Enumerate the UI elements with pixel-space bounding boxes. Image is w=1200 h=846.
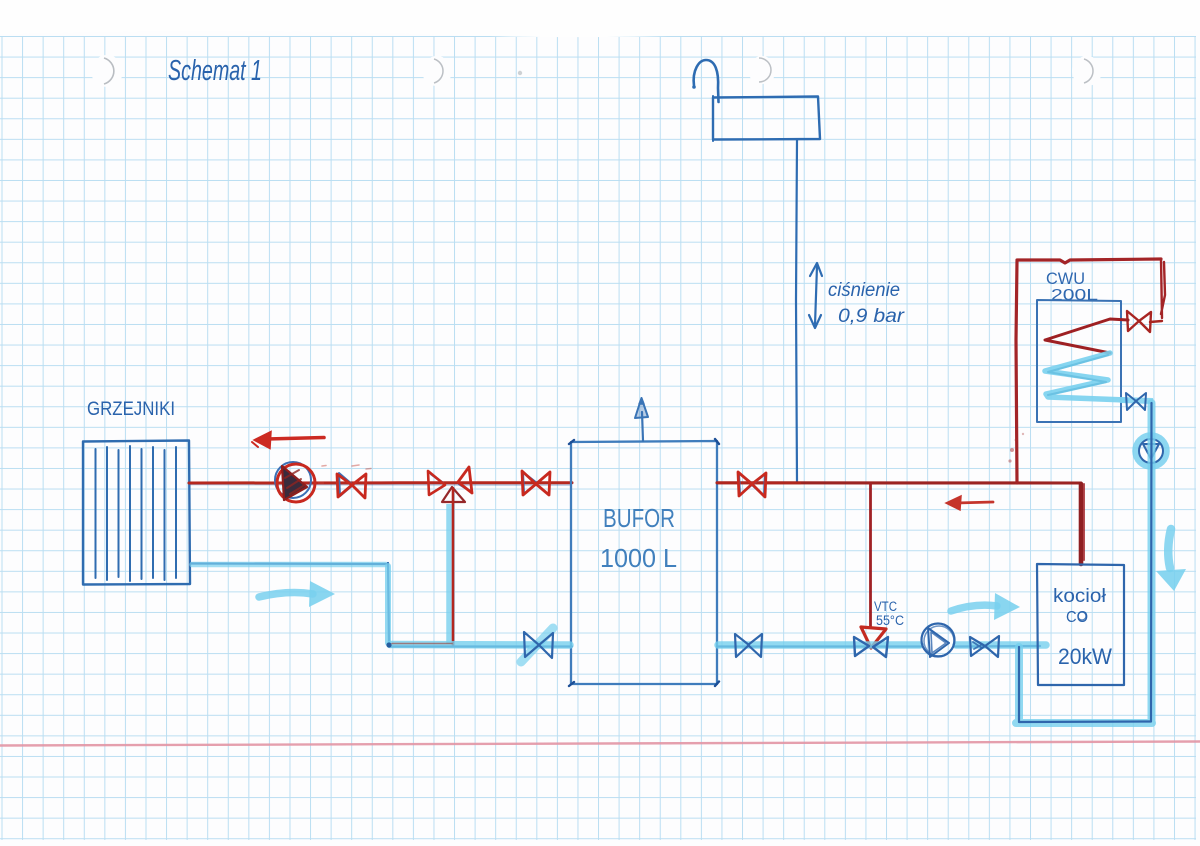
wire boiler bottom loop — [1016, 403, 1152, 723]
wire red boiler feed drop — [1079, 484, 1084, 564]
svg-text:55°C: 55°C — [876, 613, 904, 628]
wire red supply main left — [189, 481, 572, 484]
ink speckles near pump — [319, 465, 371, 483]
wire marker+red vertical from 3-way valve — [446, 504, 452, 644]
red thick arrow left — [252, 432, 324, 449]
svg-text:kocioł: kocioł — [1053, 586, 1107, 607]
valve V3 (red, right of bufor) — [738, 472, 766, 497]
valve V1 — [337, 473, 366, 498]
wire red drop to VTC valve — [869, 484, 872, 627]
svg-text:VTC: VTC — [874, 599, 897, 614]
VTC top triangle (red, points down) — [861, 627, 886, 648]
wire CWU red riser — [1016, 259, 1165, 483]
wire blue radiator return top — [190, 562, 388, 565]
red coil top — [1045, 319, 1128, 353]
BUFOR tank box — [569, 439, 719, 686]
svg-text:Schemat 1: Schemat 1 — [168, 55, 262, 87]
pump P2 (boiler, blue) — [922, 624, 955, 658]
svg-text:1000 L: 1000 L — [600, 543, 677, 573]
CWU red valve — [1127, 311, 1162, 332]
wire blue underdraw of supply main — [189, 484, 571, 487]
light blue coil bottom — [1045, 353, 1126, 400]
svg-text:BUFOR: BUFOR — [603, 503, 675, 533]
svg-text:ciśnienie: ciśnienie — [828, 280, 900, 301]
valve V6 (blue, before boiler) — [970, 636, 999, 657]
three-way mixing valve (blue body) — [854, 637, 888, 657]
top white scan band — [0, 0, 1200, 37]
node return corner — [386, 642, 391, 647]
radiator GRZEJNIKI — [83, 441, 190, 585]
svg-text:20kW: 20kW — [1058, 644, 1112, 669]
valve V2 — [522, 471, 550, 495]
expansion vessel tank — [713, 96, 820, 141]
pressure double arrow — [809, 263, 822, 328]
light blue arrow right (to boiler) — [951, 593, 1020, 620]
svg-text:CWU: CWU — [1046, 269, 1085, 288]
red thin arrow left (return flow) — [946, 496, 993, 510]
pink margin line — [0, 742, 1200, 746]
light blue arrow down (right) — [1156, 529, 1186, 591]
svg-text:CO: CO — [1066, 609, 1088, 626]
vent arrow above BUFOR — [635, 398, 648, 441]
wire red main right of BUFOR — [717, 481, 1081, 484]
scan speckles — [1008, 433, 1024, 463]
punched hole 1 — [91, 55, 123, 87]
punched hole 3 — [748, 56, 776, 84]
wire blue return corner down — [388, 563, 389, 645]
light blue arrow right (radiator return) — [259, 581, 335, 607]
svg-text:GRZEJNIKI: GRZEJNIKI — [87, 399, 175, 420]
valve V4 (blue, left bottom) — [521, 628, 553, 662]
wire blue bottom line to BUFOR — [389, 645, 572, 647]
valve V5 (blue, right of bufor) — [735, 634, 762, 657]
pump P1 — [275, 462, 315, 502]
punched hole 2 — [422, 56, 452, 86]
CWU tank box — [1037, 300, 1121, 422]
CWU pump (marker) — [1136, 436, 1166, 466]
KOCIOL boiler box — [1037, 564, 1124, 685]
svg-text:0,9 bar: 0,9 bar — [838, 306, 905, 327]
vessel hook pipe — [692, 60, 718, 102]
wire blue bottom line right of BUFOR — [717, 645, 1040, 648]
CWU blue outlet valve — [1120, 393, 1153, 410]
red tinge on return junction — [392, 643, 452, 645]
three-way valve (supply) — [428, 467, 472, 502]
wire vessel to main line — [796, 140, 797, 482]
punched hole 4 — [1072, 56, 1102, 86]
